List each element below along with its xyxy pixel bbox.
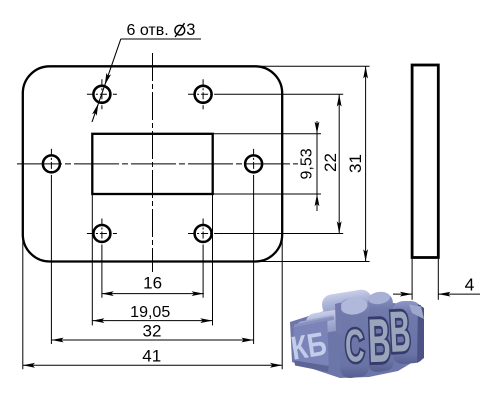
svg-text:4: 4: [465, 275, 475, 295]
crosshair hole top-right: [188, 93, 218, 95]
ext line 32 right: [253, 179, 255, 344]
ext line 9.53 top: [213, 133, 321, 135]
svg-text:3: 3: [186, 21, 195, 39]
ext line 22 top: [218, 93, 343, 95]
ext line 31 bottom: [257, 261, 370, 263]
dim 31: [363, 66, 368, 261]
svg-text:В: В: [388, 298, 412, 365]
hole top-right: [195, 86, 212, 103]
svg-text:КБ: КБ: [289, 326, 329, 367]
B mid block top cap: [367, 291, 390, 306]
side view outline: [412, 65, 438, 258]
ext line 19.05 right: [212, 194, 214, 325]
ext line 22 bottom: [218, 233, 343, 235]
waveguide aperture rectangle: [92, 134, 212, 194]
hole bottom-right: [195, 225, 212, 242]
crosshair hole mid-left: [50, 149, 52, 179]
B right side face: [417, 304, 424, 363]
dim 4: [393, 292, 480, 297]
C block: [340, 298, 369, 378]
B right top bevel: [409, 305, 424, 320]
svg-text:19,05: 19,05: [130, 304, 170, 321]
hole mid-left: [43, 155, 60, 172]
svg-text:9,53: 9,53: [299, 148, 316, 179]
logo base mass: [290, 303, 423, 378]
dim 41: [23, 363, 282, 368]
plate outline: [23, 66, 282, 261]
letter B right: [388, 298, 412, 365]
leader line for hole callout: [92, 39, 201, 122]
ext line 32 left: [50, 179, 52, 344]
ext line 4 right: [437, 259, 439, 300]
logo KB SVV 3D: [289, 288, 424, 378]
dim 22: [337, 94, 342, 233]
svg-text:С: С: [344, 319, 365, 371]
crosshair hole bottom-left: [87, 233, 117, 235]
KB block front face: [293, 321, 329, 367]
svg-text:31: 31: [346, 154, 365, 173]
horizontal centerline: [17, 163, 298, 165]
svg-text:32: 32: [143, 322, 162, 341]
dim 16: [102, 291, 204, 296]
ext line 16 right: [202, 249, 204, 298]
svg-text:В: В: [367, 307, 392, 376]
letter B mid: [367, 307, 392, 376]
roll top lower: [305, 308, 354, 336]
dim 9.53: [315, 121, 320, 211]
svg-text:41: 41: [142, 347, 161, 366]
seam before C block: [335, 303, 342, 335]
B mid block: [368, 294, 394, 372]
diameter symbol: [175, 23, 185, 37]
roll top upper: [321, 288, 374, 318]
svg-text:6 отв.: 6 отв.: [127, 22, 169, 39]
roll shadow between: [309, 308, 351, 326]
svg-text:22: 22: [321, 153, 340, 172]
ext line 41 right: [281, 234, 283, 369]
svg-text:16: 16: [143, 274, 162, 293]
ext line 19.05 left: [91, 194, 93, 325]
dim 32: [51, 338, 253, 343]
crosshair hole mid-right: [253, 149, 255, 179]
hole bottom-left: [93, 225, 110, 242]
letter C: [344, 319, 365, 371]
KB block top face: [293, 315, 334, 328]
ext line 4 left: [411, 259, 413, 300]
B right block: [392, 301, 424, 364]
KB block bottom edge: [294, 361, 329, 373]
ext line 41 left: [22, 234, 24, 369]
hole top-left: [93, 86, 110, 103]
crosshair hole top-left: [87, 93, 117, 95]
crosshair hole bottom-right: [188, 233, 218, 235]
ext line 9.53 bottom: [213, 193, 321, 195]
C block top cap: [339, 296, 368, 317]
hole mid-right: [245, 155, 262, 172]
dim 19.05: [92, 318, 212, 323]
vertical centerline: [152, 53, 154, 272]
ext line 31 top: [257, 65, 370, 67]
ext line 16 left: [101, 249, 103, 298]
crease under roll: [294, 317, 334, 328]
